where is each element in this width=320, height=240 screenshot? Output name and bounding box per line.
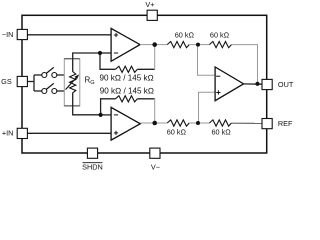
svg-text:60 kΩ: 60 kΩ	[210, 30, 229, 39]
junction dot A2 output	[152, 121, 157, 126]
wire A3 feedback to output node (gray)	[231, 45, 257, 84]
svg-text:REF: REF	[278, 119, 293, 128]
A1 minus sign	[114, 52, 118, 54]
wire top R1 to node2 (gray)	[189, 44, 198, 46]
wire bottom row node1 to R3 (gray)	[155, 122, 168, 124]
wire A2 -input node to op-amp	[101, 114, 112, 116]
resistor 60k top-left	[167, 42, 189, 48]
wire +IN pin to A2 +input	[27, 132, 111, 134]
svg-text:V+: V+	[145, 0, 154, 9]
wire bottom node2 to R4 (gray)	[198, 122, 209, 124]
junction dot A1 feedback node	[98, 51, 102, 55]
wire GS pin to switch junction	[27, 81, 34, 83]
resistor 60k top-right (A3 feedback)	[209, 42, 231, 48]
A3 plus sign	[216, 90, 220, 94]
resistor 60k bottom-left	[167, 120, 189, 126]
resistor RG (variable, vertical zigzag)	[70, 72, 76, 93]
wire A3 -input routing (gray)	[198, 45, 216, 76]
svg-text:GS: GS	[1, 77, 12, 86]
wire bottom R3 to node2 (gray)	[189, 122, 198, 124]
wire switch S1 to RG box	[57, 74, 65, 76]
op-amp A3	[215, 67, 244, 101]
svg-text:OUT: OUT	[278, 80, 294, 89]
svg-text:60 kΩ: 60 kΩ	[211, 128, 230, 137]
junction dot A2 feedback node	[99, 113, 103, 117]
wire to switch S2 left contact	[34, 90, 42, 92]
pin REF	[262, 119, 272, 129]
wire -IN pin to A1 +input	[27, 34, 111, 36]
wire bottom R4 to REF pin	[231, 122, 262, 124]
junction dot top mid node	[196, 43, 200, 47]
pin +IN	[17, 128, 27, 138]
wire switch S2 to RG box	[57, 90, 65, 92]
svg-text:SHDN: SHDN	[82, 163, 103, 171]
junction dot A1 output	[152, 42, 157, 47]
wire to switch S1 left contact	[34, 74, 42, 76]
switch S1 lever	[46, 67, 54, 73]
A2 minus sign	[114, 114, 118, 116]
A1 plus sign	[114, 33, 118, 37]
pin OUT	[262, 79, 272, 89]
junction dot bottom mid node	[196, 121, 200, 125]
RG outline box	[64, 59, 80, 106]
svg-text:V−: V−	[151, 163, 160, 171]
A2 feedback loop left/top	[101, 99, 116, 115]
pin V+	[147, 10, 157, 20]
svg-text:90 kΩ / 145 kΩ: 90 kΩ / 145 kΩ	[100, 87, 154, 96]
svg-text:60 kΩ: 60 kΩ	[167, 128, 186, 137]
A2 plus sign	[114, 131, 118, 135]
A1 feedback loop left/bottom	[100, 53, 115, 69]
svg-text:90 kΩ / 145 kΩ: 90 kΩ / 145 kΩ	[99, 73, 153, 82]
wire A3 +input routing (gray)	[199, 92, 216, 123]
label SHDN overline	[83, 162, 103, 164]
wire RG top connector to A1 feedback node	[73, 53, 100, 72]
wire A3 output to OUT pin	[244, 83, 262, 85]
wire top row node1 to R1 (gray)	[155, 44, 168, 46]
pin GS	[17, 76, 27, 86]
wire A2 output to node (gray)	[140, 122, 154, 124]
junction dot A3 output	[255, 82, 259, 86]
A3 minus sign	[216, 75, 220, 77]
outer IC boundary box	[22, 15, 267, 153]
wire A1 output to node (gray)	[140, 44, 155, 46]
wire A1 feedback vertical (gray)	[154, 45, 156, 69]
op-amp A1	[111, 28, 140, 61]
svg-text:60 kΩ: 60 kΩ	[175, 30, 194, 39]
switch S2 lever	[46, 83, 54, 89]
pin V-	[150, 148, 160, 158]
wire A1 feedback right segment	[137, 68, 154, 70]
svg-text:−IN: −IN	[2, 30, 14, 39]
wire A1 -input node to op-amp	[100, 52, 111, 54]
switch S1 contacts	[42, 73, 47, 78]
pin -IN	[17, 29, 27, 39]
wire RG bottom connector to A2 feedback node	[73, 93, 101, 115]
wire top node2 to R2 (gray)	[198, 44, 209, 46]
svg-text:+IN: +IN	[2, 129, 14, 138]
resistor 90k/145k (A2 feedback)	[115, 96, 137, 102]
switch S2 contacts	[42, 89, 47, 94]
pin SHDN	[87, 148, 97, 158]
op-amp A2	[111, 107, 140, 140]
resistor 60k bottom-right	[209, 120, 231, 126]
wire A2 feedback right segment	[137, 98, 154, 100]
wire switch junction vertical	[33, 75, 35, 91]
resistor 90k/145k (A1 feedback)	[115, 66, 137, 72]
RG adjustment arrow	[66, 78, 76, 90]
wire A2 feedback vertical (gray)	[154, 99, 156, 123]
